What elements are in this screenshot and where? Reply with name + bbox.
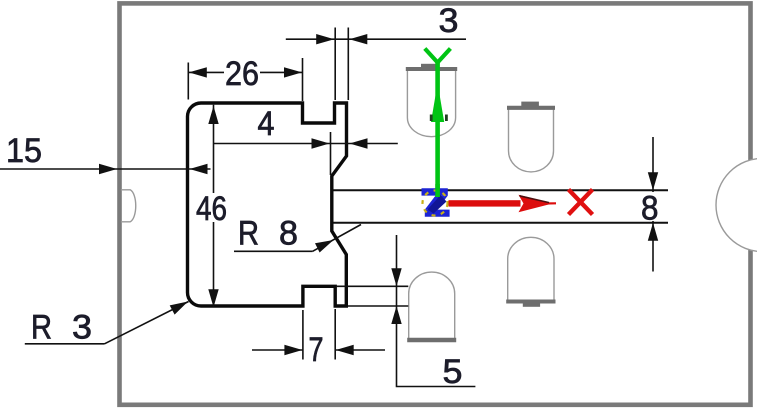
slot bottom line	[331, 222, 668, 224]
tab A outline (top-left)	[407, 69, 455, 137]
tab C dark bottom edge	[407, 338, 456, 342]
dimension 3: arrows	[316, 34, 334, 44]
green stub over origin	[435, 184, 440, 197]
Y axis green line	[435, 60, 440, 196]
dimension 46: line segments	[213, 105, 215, 193]
svg-text:8: 8	[641, 190, 659, 228]
tab D outline (bottom-right)	[508, 237, 554, 301]
dimension 5: extension lines	[336, 285, 408, 287]
tab D bottom bump	[523, 303, 540, 307]
svg-text:26: 26	[225, 55, 259, 93]
svg-text:3: 3	[72, 309, 92, 347]
svg-text:15: 15	[6, 132, 42, 170]
tab B dark top edge	[507, 106, 555, 110]
svg-text:46: 46	[196, 190, 227, 228]
Y arrow dark flanks	[430, 115, 433, 122]
svg-text:4: 4	[258, 105, 275, 143]
dimension 15: arrows	[99, 164, 117, 174]
X axis label	[569, 190, 593, 215]
dimension 15: line	[0, 168, 211, 170]
dimension 26: arrows	[189, 67, 207, 77]
Y axis glyph	[425, 49, 451, 63]
part profile contour	[188, 103, 347, 306]
origin Z marker diagonal	[425, 196, 448, 210]
X axis arrow dark edge	[520, 196, 550, 203]
svg-text:5: 5	[443, 353, 463, 391]
X axis red shaft	[449, 200, 521, 206]
svg-text:R: R	[31, 309, 52, 347]
svg-text:3: 3	[439, 2, 459, 40]
X axis arrow tip spike	[545, 202, 556, 204]
tab A top bump	[421, 64, 439, 69]
dimension 3: extension lines	[334, 28, 336, 101]
dimension R8: underline and leader	[234, 250, 313, 252]
dimension R3: underline and leader	[25, 343, 105, 345]
origin yellow dashed circle	[423, 191, 448, 216]
tab A dark top edge	[406, 67, 457, 71]
dimension 7: arrows	[284, 345, 302, 355]
dimension 26: extension lines	[187, 63, 189, 100]
dimension 26: line segments	[188, 71, 224, 73]
tab B outline (top-right)	[509, 108, 554, 172]
dimension 7: line segments	[252, 349, 303, 351]
dimension 4: arrows	[312, 138, 330, 148]
right edge notch	[716, 158, 757, 251]
tab D dark bottom edge	[506, 300, 555, 304]
Y axis arrowhead	[431, 83, 444, 122]
X axis arrowhead	[519, 195, 553, 212]
dimension R8: arrow	[315, 240, 334, 253]
dimension 8: line segments	[652, 137, 654, 192]
svg-text:7: 7	[309, 331, 324, 369]
origin marker dark core	[428, 195, 447, 214]
origin Z marker top bar	[422, 188, 448, 195]
tab B top bump	[521, 102, 539, 108]
svg-text:8: 8	[279, 215, 298, 253]
dimension R3: arrow	[170, 302, 188, 315]
svg-text:R: R	[238, 215, 259, 253]
dimension 5: vertical line and underline	[397, 235, 476, 387]
dimension 4: line	[214, 143, 398, 145]
dimension 46: arrows	[208, 106, 218, 124]
dimension 8: text	[639, 193, 661, 222]
left edge notch	[121, 190, 136, 222]
dimension 3: line	[286, 38, 466, 40]
origin Z marker bottom bar	[425, 210, 450, 217]
dimension 4: extension line	[330, 132, 332, 175]
dimension 5: arrows	[391, 268, 401, 286]
tab C outline (bottom-left)	[409, 272, 455, 340]
dimension 7: extension lines	[302, 310, 304, 360]
dimension 8: arrows	[648, 172, 658, 190]
slot top line	[331, 189, 668, 191]
